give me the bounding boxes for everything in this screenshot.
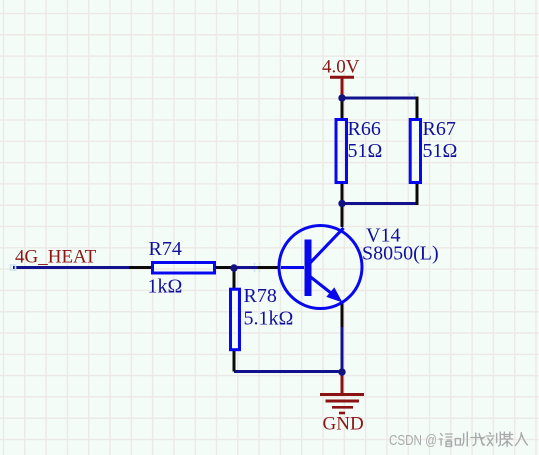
svg-text:51Ω: 51Ω [423,140,458,162]
svg-text:R66: R66 [348,118,381,140]
svg-text:R78: R78 [244,285,277,307]
svg-text:CSDN @: CSDN @ [389,432,437,449]
svg-text:5.1kΩ: 5.1kΩ [244,308,294,330]
svg-text:1kΩ: 1kΩ [148,276,183,298]
svg-text:R74: R74 [149,238,182,260]
svg-text:GND: GND [323,414,364,435]
svg-text:51Ω: 51Ω [348,140,383,162]
svg-text:4G_HEAT: 4G_HEAT [15,247,97,268]
svg-text:4.0V: 4.0V [322,57,360,78]
svg-text:R67: R67 [423,118,456,140]
svg-text:S8050(L): S8050(L) [362,243,439,265]
